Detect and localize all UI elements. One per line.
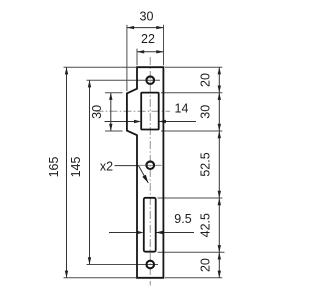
right dimension line column bbox=[218, 67, 220, 278]
svg-text:30: 30 bbox=[198, 105, 212, 119]
svg-text:30: 30 bbox=[140, 9, 154, 23]
svg-text:42.5: 42.5 bbox=[198, 213, 212, 237]
strike plate outline bbox=[127, 67, 163, 278]
center mark middle hole bbox=[139, 164, 162, 166]
dimension 14 cutout width bbox=[105, 121, 137, 123]
dimension 145 hole spacing bbox=[89, 80, 91, 264]
dimension 22 plate width bbox=[137, 51, 164, 53]
dimension 9.5 slot width bbox=[109, 232, 138, 234]
dimension 30 lip/cutout height left bbox=[110, 93, 112, 131]
extension line top edge right (20 dim) bbox=[165, 66, 222, 68]
extension lines cutout bottom bbox=[105, 130, 123, 132]
extension line bottom edge right (20 dim) bbox=[165, 277, 222, 279]
svg-text:9.5: 9.5 bbox=[174, 212, 191, 226]
extension line top edge left (165 dim) bbox=[64, 66, 137, 68]
svg-text:20: 20 bbox=[198, 258, 212, 272]
svg-text:20: 20 bbox=[198, 73, 212, 87]
vertical centerline of plate bbox=[149, 57, 151, 286]
svg-text:165: 165 bbox=[47, 157, 61, 178]
extension line bottom edge left (165 dim) bbox=[64, 277, 137, 279]
screw hole bottom bbox=[146, 261, 154, 269]
svg-text:22: 22 bbox=[141, 32, 155, 46]
extension lines cutout top bbox=[105, 92, 123, 94]
svg-text:52.5: 52.5 bbox=[198, 152, 212, 176]
dimension 165 overall height bbox=[66, 67, 68, 278]
dimension 30 top width bbox=[127, 27, 164, 29]
extension line slot top (52.5/42.5) bbox=[158, 197, 223, 199]
extension line width 30 left bbox=[126, 25, 128, 91]
extension line bottom hole center (145 dim) bbox=[87, 264, 159, 266]
extension line slot bottom (42.5/20) bbox=[158, 251, 225, 253]
vertical slot bbox=[144, 198, 156, 252]
svg-text:14: 14 bbox=[175, 102, 189, 116]
svg-text:x2: x2 bbox=[100, 160, 113, 174]
extension line width 22 left bbox=[136, 49, 138, 66]
svg-text:30: 30 bbox=[90, 105, 104, 119]
extension line width right (30/22) bbox=[163, 25, 165, 66]
extension line top hole center (145 dim) bbox=[87, 79, 161, 81]
screw hole middle bbox=[146, 161, 154, 169]
latch cutout opening bbox=[141, 93, 159, 130]
screw hole top bbox=[146, 76, 154, 84]
horizontal centerline through latch cutout bbox=[96, 110, 171, 112]
svg-text:145: 145 bbox=[69, 157, 83, 178]
